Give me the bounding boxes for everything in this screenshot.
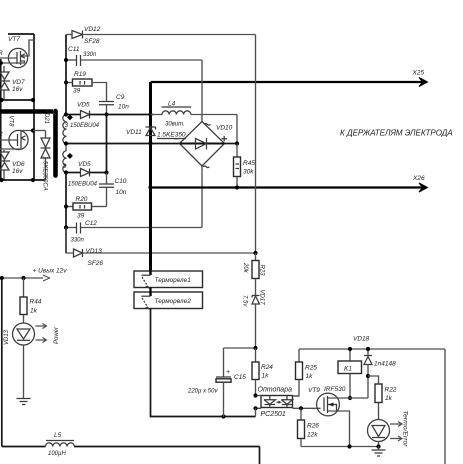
wire bottom with L5	[2, 446, 260, 448]
wire between relays	[149, 288, 151, 293]
svg-text:R24: R24	[261, 364, 273, 371]
svg-text:L4: L4	[168, 101, 176, 108]
wire rail y180	[0, 179, 46, 181]
diode VD5 lower 150EBU04	[64, 161, 109, 188]
svg-text:30k: 30k	[243, 169, 254, 176]
svg-text:VD17: VD17	[259, 290, 265, 306]
svg-text:C11: C11	[68, 46, 80, 53]
svg-text:C12: C12	[85, 220, 97, 227]
svg-text:10n: 10n	[116, 189, 127, 196]
resistor R44 1k	[20, 278, 42, 323]
inductor L5 100uH	[46, 432, 75, 457]
transistor VT8	[0, 116, 33, 150]
resistor R23 20k	[242, 253, 265, 296]
svg-text:L5: L5	[54, 432, 62, 439]
svg-text:VD13: VD13	[4, 329, 10, 345]
inductor L4 30 vit	[151, 101, 238, 128]
LED Power	[4, 323, 60, 398]
arrow X26	[419, 183, 428, 192]
capacitor C10 10n	[99, 173, 127, 207]
resistor R19 39	[64, 71, 107, 101]
relay coil K1	[338, 347, 362, 400]
wire +12v rail	[1, 278, 3, 447]
svg-text:C9: C9	[116, 94, 125, 101]
diode VD18 1n4148	[364, 347, 396, 398]
svg-text:X25: X25	[412, 70, 425, 77]
svg-text:VT8: VT8	[8, 116, 14, 128]
secondary top rail x66	[65, 35, 67, 117]
svg-text:X26: X26	[412, 175, 425, 182]
svg-text:VD21: VD21	[43, 109, 49, 124]
capacitor C9 10n	[99, 94, 129, 115]
svg-text:1k: 1k	[385, 395, 393, 402]
svg-text:VD7: VD7	[12, 79, 25, 86]
transformer secondary lower winding	[63, 144, 73, 173]
wire L4 to bridge plus	[236, 115, 238, 144]
thick output plus wire X25	[151, 81, 424, 83]
svg-text:1.5KE350CA: 1.5KE350CA	[42, 156, 48, 191]
svg-text:16v: 16v	[12, 86, 23, 93]
wire bottom exit	[259, 447, 261, 464]
svg-text:Термореле2: Термореле2	[155, 298, 192, 305]
svg-text:VD18: VD18	[353, 336, 370, 343]
diode VD5 upper 150EBU04	[64, 102, 153, 119]
svg-text:1k: 1k	[262, 373, 270, 380]
wire C15 top link	[224, 347, 256, 349]
wire VT9 source bottom	[301, 446, 380, 448]
wire rail y100	[0, 99, 34, 101]
svg-text:1k: 1k	[306, 373, 314, 380]
junction dot VT8 drain	[31, 128, 35, 132]
svg-text:R20: R20	[76, 196, 88, 203]
svg-text:+: +	[226, 369, 230, 376]
resistor R25 1k	[293, 349, 318, 396]
capacitor C12 330n	[64, 220, 202, 244]
rail x66 lower	[65, 173, 67, 254]
svg-text:K1: K1	[344, 366, 352, 373]
svg-text:30вит.: 30вит.	[165, 122, 185, 128]
wire relay down to opto	[151, 309, 256, 417]
transformer primary bar	[53, 111, 58, 176]
svg-text:R22: R22	[385, 387, 397, 394]
svg-text:10n: 10n	[118, 104, 129, 111]
wire +12v out arrow	[0, 268, 67, 282]
svg-text:150EBU04: 150EBU04	[70, 123, 100, 129]
wire centre tap to bridge	[66, 143, 180, 145]
transistor VT9 IRF530	[299, 386, 368, 447]
svg-text:R26: R26	[307, 423, 319, 430]
svg-text:1.5KE350: 1.5KE350	[157, 132, 186, 139]
capacitor C11 330n	[64, 46, 202, 66]
TVS VD11 1.5KE350	[126, 127, 186, 139]
resistor R45 30k	[234, 144, 256, 188]
bridge rectifier VD10	[174, 60, 233, 228]
TVS VD21 1.5KE350CA	[41, 109, 51, 191]
optocoupler PC2501	[253, 387, 320, 419]
svg-text:VD11: VD11	[126, 129, 142, 136]
svg-text:3: 3	[65, 122, 69, 129]
svg-text:VT9: VT9	[308, 387, 320, 394]
zener VD7 16v	[0, 66, 25, 100]
svg-text:12k: 12k	[307, 432, 318, 439]
transformer secondary upper winding	[63, 114, 100, 143]
resistor R24 1k	[252, 348, 273, 396]
svg-text:+ Uвых 12v: + Uвых 12v	[33, 268, 68, 275]
svg-text:39: 39	[77, 213, 85, 220]
capacitor C15 220u	[187, 348, 246, 417]
svg-text:R23: R23	[259, 265, 265, 277]
LED Termo-Error	[368, 411, 409, 448]
thermal relay 2	[134, 292, 203, 309]
svg-text:220µ x 50v: 220µ x 50v	[187, 389, 218, 395]
wire cathode bus	[106, 115, 108, 173]
svg-text:VT7: VT7	[8, 36, 20, 43]
svg-text:R45: R45	[243, 160, 255, 167]
wire VD21 top link	[33, 130, 46, 132]
thick vertical bus	[149, 82, 152, 271]
thick primary feed wire	[0, 109, 53, 113]
svg-text:16v: 16v	[12, 168, 23, 175]
svg-text:IRF530: IRF530	[324, 386, 346, 393]
wire R22 tap	[368, 376, 379, 384]
zener VD6 16v	[0, 150, 25, 180]
svg-text:39: 39	[73, 88, 81, 95]
wire left vertical bus x34	[33, 34, 35, 180]
svg-text:VD6: VD6	[12, 161, 25, 168]
junction dots y180	[0, 178, 4, 182]
svg-text:100µH: 100µH	[48, 451, 66, 457]
resistor R20 39	[64, 196, 107, 220]
svg-text:20k: 20k	[242, 262, 248, 274]
wire relay supply top	[299, 348, 445, 350]
ground left	[17, 399, 31, 405]
svg-text:VD5: VD5	[77, 102, 90, 109]
junction dots on X26 wire	[148, 185, 152, 189]
svg-text:VD12: VD12	[84, 26, 101, 33]
junction dots y100	[0, 98, 4, 102]
resistor R26 12k	[298, 408, 320, 446]
svg-text:1k: 1k	[30, 308, 38, 315]
svg-text:PC2501: PC2501	[261, 411, 286, 418]
wire long vertical from VD12	[255, 35, 257, 254]
ground right	[372, 447, 386, 457]
svg-text:Power: Power	[54, 326, 60, 344]
svg-text:Termo/Error: Termo/Error	[402, 411, 409, 448]
resistor R22 1k	[375, 384, 397, 420]
svg-text:3: 3	[63, 163, 67, 170]
wire bridge plus	[225, 143, 238, 145]
svg-text:7,5v: 7,5v	[242, 295, 248, 307]
svg-text:R19: R19	[74, 71, 86, 78]
wire left edge rail	[0, 59, 2, 180]
svg-text:VD13: VD13	[86, 248, 103, 255]
svg-text:R: R	[0, 50, 3, 57]
svg-text:VD5: VD5	[78, 161, 91, 168]
svg-text:R25: R25	[305, 365, 317, 372]
svg-text:VD10: VD10	[216, 125, 233, 132]
svg-text:Термореле1: Термореле1	[155, 277, 192, 284]
zener VD17 7.5v	[242, 290, 265, 349]
svg-text:Оптопара: Оптопара	[258, 387, 293, 394]
svg-text:SF28: SF28	[84, 38, 100, 45]
svg-text:1n4148: 1n4148	[374, 361, 396, 368]
svg-text:330n: 330n	[83, 52, 97, 58]
transistor VT7	[0, 36, 34, 68]
svg-text:К ДЕРЖАТЕЛЯМ ЭЛЕКТРОДА: К ДЕРЖАТЕЛЯМ ЭЛЕКТРОДА	[340, 129, 453, 138]
thermal relay 1	[134, 271, 203, 288]
svg-text:150EBU04: 150EBU04	[68, 182, 98, 188]
svg-text:330n: 330n	[71, 238, 85, 244]
diode VD12 SF28	[66, 26, 256, 45]
diode VD13 SF26	[66, 228, 256, 268]
svg-text:C15: C15	[234, 374, 246, 381]
thick output minus wire X26	[151, 186, 424, 188]
svg-text:SF26: SF26	[88, 260, 104, 267]
svg-text:R44: R44	[30, 299, 42, 306]
wire fan supply right	[444, 349, 446, 464]
arrow X25	[419, 78, 428, 87]
svg-text:C10: C10	[115, 178, 127, 185]
wire VT7 drain top rail	[8, 33, 34, 35]
svg-text:R: R	[0, 131, 3, 138]
